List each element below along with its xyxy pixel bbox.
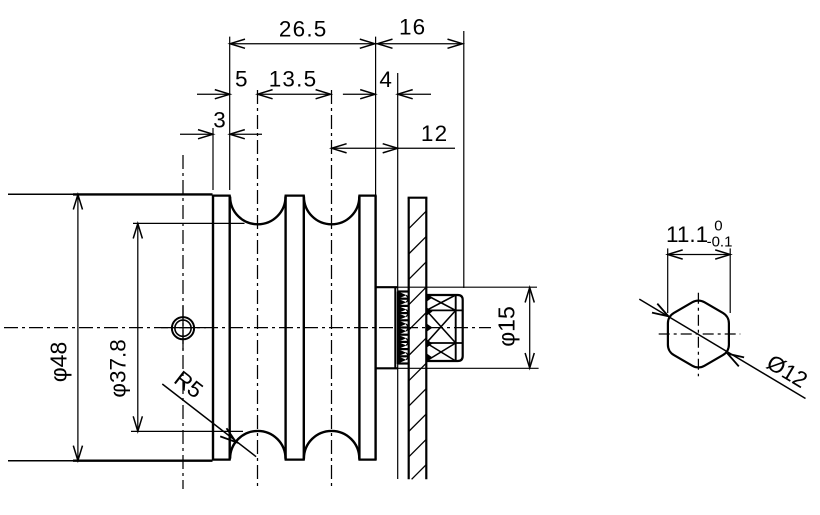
spline end groove line <box>455 295 457 361</box>
spline root line upper <box>426 309 462 311</box>
phi37.8 ext line bottom <box>131 430 243 432</box>
dim text phi15 <box>494 306 520 347</box>
setscrew hole crosshair vertical <box>182 306 184 350</box>
ext line x397.7 <box>397 73 399 479</box>
dim text 4 <box>379 67 392 92</box>
hex horizontal centerline <box>659 333 741 335</box>
svg-text:φ37.8: φ37.8 <box>106 339 131 397</box>
groove 2 centerline <box>331 90 333 486</box>
plate left face <box>408 198 410 480</box>
dim 12 line <box>332 144 455 153</box>
dim text 5 <box>235 66 248 91</box>
ext line x229.7 <box>229 37 231 190</box>
dim line phi37.8 <box>133 223 142 431</box>
hex ext line left <box>667 248 669 313</box>
svg-text:26.5: 26.5 <box>279 16 328 41</box>
tolerance text -0.1 <box>707 234 733 251</box>
phi15 ext line bottom <box>398 367 539 369</box>
left shaft bottom edge <box>8 460 80 462</box>
leader line R5 <box>162 384 256 457</box>
groove arc bottom <box>230 431 285 459</box>
pulley rim face line 1 <box>212 196 214 460</box>
svg-text:13.5: 13.5 <box>269 66 318 91</box>
dim text 3 <box>213 107 226 132</box>
svg-text:Ø12: Ø12 <box>762 350 811 393</box>
dim line 11.1 <box>668 250 731 259</box>
pulley rim face line 6 <box>374 196 376 460</box>
plate top edge <box>408 197 428 199</box>
leader text O12 <box>762 350 811 393</box>
spline zigzag pattern <box>426 295 455 361</box>
svg-text:φ48: φ48 <box>46 342 72 383</box>
rim bottom edge <box>358 459 376 461</box>
groove 1 centerline <box>257 90 259 486</box>
setscrew hole crosshair horizontal <box>161 327 206 329</box>
dim text 16 <box>399 14 426 39</box>
dim text 13.5 <box>269 66 318 91</box>
dim 5 left arrow/line <box>197 90 230 99</box>
dim line phi48 <box>73 194 82 460</box>
cylinder bottom edge <box>73 460 213 462</box>
setscrew hole centerline <box>182 155 184 489</box>
dim 3 arrows <box>180 130 262 139</box>
hub right face <box>394 287 396 368</box>
phi15 ext line top <box>398 286 537 288</box>
dim text phi37.8 <box>106 339 131 397</box>
rim bottom edge <box>212 459 231 461</box>
spline teeth at plate face <box>427 294 433 362</box>
main axis centerline <box>4 327 491 329</box>
rim top edge <box>212 195 231 197</box>
groove arc top <box>230 197 285 225</box>
setscrew hole outer circle <box>172 317 194 339</box>
svg-text:-0.1: -0.1 <box>707 234 733 251</box>
rim top edge <box>285 195 305 197</box>
groove arc bottom <box>304 431 359 459</box>
hex vertical centerline <box>697 293 699 377</box>
svg-text:3: 3 <box>213 107 226 132</box>
ext line x213 <box>212 128 214 190</box>
left shaft top edge <box>8 193 80 195</box>
svg-text:φ15: φ15 <box>494 306 520 347</box>
dim line 26.5/16 <box>230 39 463 48</box>
svg-text:4: 4 <box>379 67 392 92</box>
dim text 12 <box>421 121 448 146</box>
rim top edge <box>358 195 376 197</box>
spline root line lower <box>426 342 462 344</box>
pulley rim face line 2 <box>228 196 230 460</box>
tolerance text 0 <box>714 217 722 234</box>
cylinder top edge <box>73 193 213 195</box>
dim text 26.5 <box>279 16 328 41</box>
dim 13.5 line <box>258 90 331 99</box>
rim bottom edge <box>285 459 305 461</box>
plate section hatching <box>409 211 427 479</box>
svg-text:16: 16 <box>399 14 426 39</box>
leader line O12 <box>639 299 805 398</box>
spline shaft outline <box>426 295 462 361</box>
setscrew hole inner circle <box>175 320 191 336</box>
svg-text:5: 5 <box>235 66 248 91</box>
plate right face <box>425 198 427 480</box>
dim line phi15 <box>525 287 534 368</box>
hub bottom edge <box>376 367 398 369</box>
ext line x375.6 <box>375 37 377 196</box>
groove arc top <box>304 197 359 225</box>
phi37.8 ext line top <box>133 222 245 224</box>
dim 4 right line <box>398 90 431 99</box>
dim text 11.1 <box>666 222 708 247</box>
pulley rim face line 4 <box>303 196 305 460</box>
pulley rim face line 5 <box>358 196 360 460</box>
hex ext line right <box>729 248 731 313</box>
dim text phi48 <box>46 342 72 383</box>
dim 4 left line <box>343 90 375 99</box>
leader text R5 <box>170 366 208 403</box>
svg-text:0: 0 <box>714 217 722 234</box>
ext line x463.8 <box>463 31 465 288</box>
svg-text:R5: R5 <box>170 366 208 403</box>
pulley rim face line 3 <box>284 196 286 460</box>
svg-text:12: 12 <box>421 121 448 146</box>
hub top edge <box>376 286 398 288</box>
svg-text:11.1: 11.1 <box>666 222 708 247</box>
hex bar outline <box>668 301 729 368</box>
serration teeth between hub and plate <box>398 292 409 365</box>
